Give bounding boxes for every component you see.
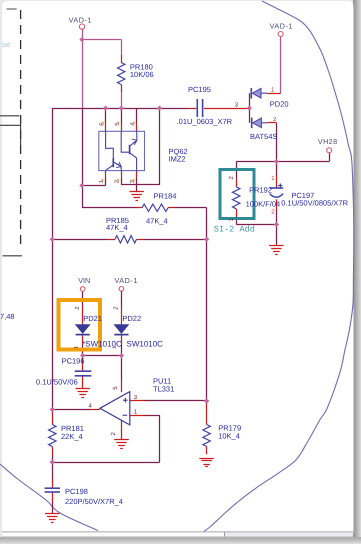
svg-text:SI-2 Add: SI-2 Add: [214, 224, 255, 234]
svg-text:7,48: 7,48: [0, 312, 15, 321]
svg-text:SW1010C: SW1010C: [127, 339, 164, 348]
svg-text:se: se: [2, 40, 11, 49]
svg-text:PC195: PC195: [188, 85, 211, 94]
svg-text:IMZ2: IMZ2: [169, 155, 186, 164]
svg-text:100K/F/04: 100K/F/04: [246, 200, 281, 209]
svg-text:TL331: TL331: [153, 384, 174, 393]
svg-text:22K_4: 22K_4: [61, 432, 83, 441]
svg-text:PR184: PR184: [154, 192, 177, 201]
svg-text:47K_4: 47K_4: [146, 216, 168, 225]
svg-text:BAT54S: BAT54S: [250, 132, 277, 141]
svg-text:220P/50V/X7R_4: 220P/50V/X7R_4: [65, 497, 123, 506]
svg-text:VIN: VIN: [78, 276, 90, 285]
svg-text:1: 1: [73, 346, 79, 349]
svg-text:PD22: PD22: [122, 314, 141, 323]
svg-text:VH28: VH28: [318, 137, 338, 146]
svg-text:1: 1: [112, 346, 118, 349]
svg-text:0.1U/50V/0805/X7R: 0.1U/50V/0805/X7R: [281, 199, 348, 208]
svg-text:10K_4: 10K_4: [218, 431, 240, 440]
svg-text:10K/06: 10K/06: [130, 70, 154, 79]
svg-text:PD21: PD21: [83, 314, 102, 323]
svg-text:0.1U/50V/06: 0.1U/50V/06: [36, 377, 78, 386]
svg-text:PC198: PC198: [65, 487, 88, 496]
svg-text:VAD-1: VAD-1: [270, 22, 293, 31]
svg-text:47K_4: 47K_4: [106, 223, 128, 232]
svg-text:VAD-1: VAD-1: [115, 276, 138, 285]
svg-text:PC196: PC196: [62, 357, 85, 366]
svg-text:.01U_0603_X7R: .01U_0603_X7R: [177, 117, 233, 126]
svg-text:PR192: PR192: [249, 185, 272, 194]
svg-text:VAD-1: VAD-1: [69, 15, 92, 24]
svg-text:PD20: PD20: [270, 100, 289, 109]
